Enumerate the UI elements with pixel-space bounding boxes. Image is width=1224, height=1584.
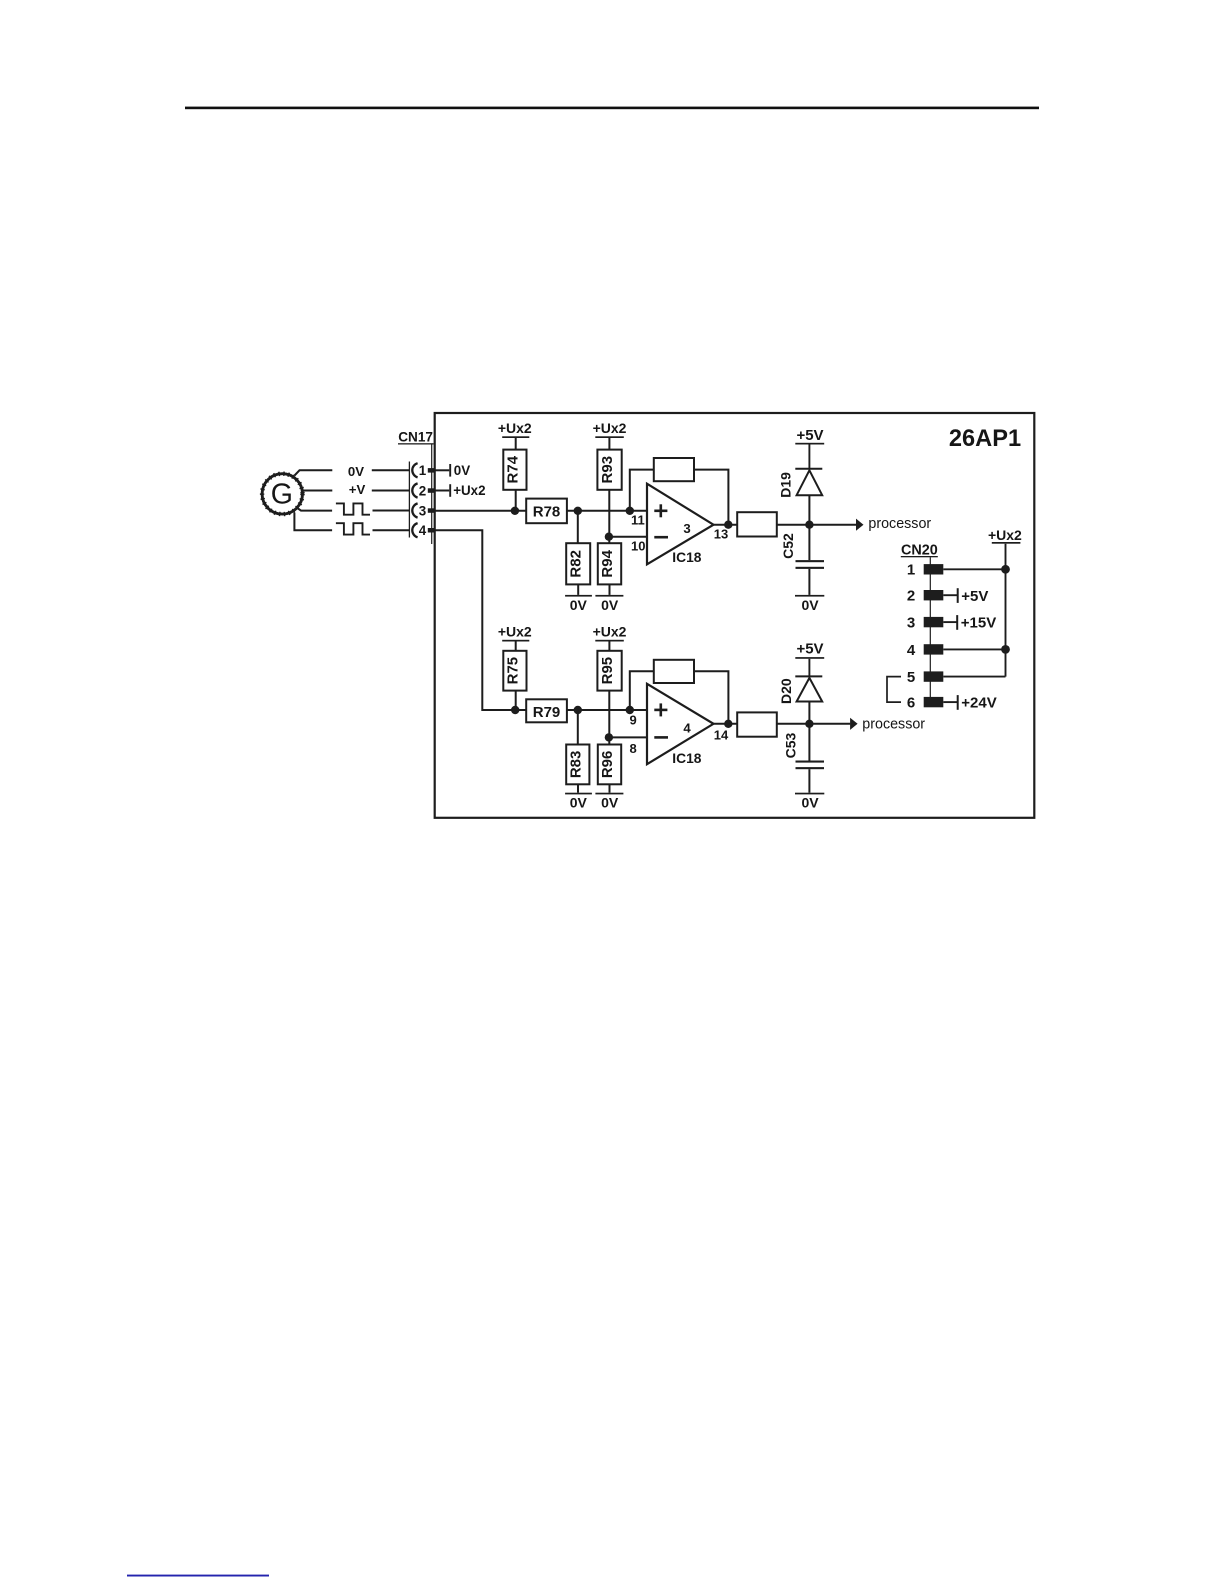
CN17 contact arc pin 2 <box>412 483 417 497</box>
CN20 pin pad 5 <box>924 671 944 681</box>
svg-text:+Ux2: +Ux2 <box>498 420 532 436</box>
feedback resistor opamp3 <box>654 458 694 481</box>
node A wire pin3 to R78 <box>434 510 526 512</box>
power +Ux2 at CN20 <box>988 527 1022 544</box>
svg-text:R93: R93 <box>599 456 616 484</box>
CN20 pin pad 2 <box>924 590 944 600</box>
node 11 junction dot <box>626 507 634 515</box>
CN20 pin pad 3 <box>924 617 944 627</box>
wire G to row2 <box>303 490 333 492</box>
svg-text:9: 9 <box>630 713 637 728</box>
op-amp IC18 section 4 <box>647 684 714 766</box>
resistor R83 <box>566 710 589 793</box>
junction dot D20/C53 <box>805 720 813 728</box>
CN20 pin pad 1 <box>924 564 944 574</box>
resistor R95 <box>597 651 621 745</box>
svg-text:G: G <box>271 478 293 510</box>
resistor R93 <box>597 450 621 544</box>
CN17 contact arc pin 1 <box>412 463 417 477</box>
svg-text:26AP1: 26AP1 <box>949 426 1021 452</box>
svg-text:0V: 0V <box>570 597 588 613</box>
feedback wire opamp4 <box>630 671 729 724</box>
ground 0V under R82 <box>565 595 592 613</box>
wire row2 to CN17 pin2 <box>372 490 410 492</box>
svg-text:0V: 0V <box>454 463 470 478</box>
junction dot R79/R83 <box>574 706 582 714</box>
wire pin4 down to lower channel <box>434 530 526 710</box>
resistor R94 <box>598 543 621 595</box>
junction dot R95/R96 inverting input <box>605 733 613 741</box>
connector CN20 <box>901 543 938 702</box>
ground 0V under C52 <box>795 595 824 613</box>
svg-text:IC18: IC18 <box>672 550 701 565</box>
svg-text:processor: processor <box>868 516 931 532</box>
svg-text:11: 11 <box>631 513 645 528</box>
junction dot R74/pin3 <box>511 507 519 515</box>
svg-text:R94: R94 <box>599 549 616 577</box>
svg-text:0V: 0V <box>601 597 619 613</box>
CN17 pin pad 3 <box>428 508 435 513</box>
wire to processor upper <box>809 524 856 526</box>
svg-text:CN17: CN17 <box>398 430 433 445</box>
junction dot R78/R82 <box>574 507 582 515</box>
output coupling box opamp3 <box>737 512 777 536</box>
output node dot opamp4 <box>724 720 732 728</box>
header rule <box>185 107 1039 110</box>
svg-text:0V: 0V <box>570 795 588 811</box>
svg-text:C53: C53 <box>783 732 799 758</box>
svg-text:4: 4 <box>907 642 916 659</box>
ground 0V under R94 <box>595 595 623 613</box>
junction dot pin1 rail <box>1001 565 1010 574</box>
wire row1 to CN17 pin1 <box>372 469 410 471</box>
power +Ux2 at R74 <box>498 420 532 450</box>
svg-text:4: 4 <box>683 720 691 735</box>
resistor R79 <box>526 699 567 722</box>
capacitor C53 <box>783 724 825 793</box>
junction dot D19/C52 <box>805 521 813 529</box>
svg-text:R96: R96 <box>599 751 616 779</box>
svg-text:IC18: IC18 <box>672 751 701 766</box>
wire G to row3 <box>297 508 332 511</box>
CN20 pin pad 4 <box>924 644 944 654</box>
svg-text:R75: R75 <box>505 657 522 685</box>
svg-text:R78: R78 <box>533 503 561 520</box>
CN17 pin pad 1 <box>428 468 435 473</box>
CN17 pin pad 2 <box>428 488 435 493</box>
wire pin1 to +Ux2 rail <box>943 568 1005 570</box>
CN17 contact arc pin 3 <box>412 503 417 517</box>
svg-text:+5V: +5V <box>796 640 823 657</box>
svg-text:2: 2 <box>419 483 426 498</box>
wire pin4 to +Ux2 rail <box>943 648 1005 650</box>
0V tick pin1 <box>449 464 451 477</box>
svg-text:6: 6 <box>907 695 915 712</box>
CN17 pin pad 4 <box>428 528 435 533</box>
power +5V at D20 <box>795 640 824 675</box>
wire opamp4 output <box>714 723 738 725</box>
wire G to row4 <box>294 513 332 531</box>
svg-text:+V: +V <box>349 482 366 497</box>
board outline 26AP1 <box>435 413 1035 818</box>
power +Ux2 at R93 <box>593 420 627 450</box>
wire G to row1 <box>295 470 333 475</box>
power +Ux2 at R75 <box>498 623 532 651</box>
power +5V at D19 <box>795 427 824 468</box>
junction dot R75/pin4 wire <box>511 706 519 714</box>
CN20 pin pad 6 <box>924 697 944 707</box>
resistor R75 <box>503 651 526 710</box>
wire row3 to CN17 pin3 <box>373 510 410 512</box>
output coupling box opamp4 <box>737 712 777 736</box>
svg-text:1: 1 <box>419 463 427 478</box>
junction dot pin4 rail <box>1001 645 1010 654</box>
wire to D19/C52 junction <box>777 524 810 526</box>
svg-text:0V: 0V <box>801 597 819 613</box>
svg-text:14: 14 <box>714 727 729 742</box>
square wave symbol row3 <box>336 503 370 514</box>
svg-text:+Ux2: +Ux2 <box>498 623 532 639</box>
power +Ux2 at R95 <box>593 623 627 651</box>
svg-text:3: 3 <box>419 503 426 518</box>
svg-text:R79: R79 <box>533 704 561 721</box>
connector CN17 <box>398 430 434 544</box>
svg-text:0V: 0V <box>348 464 364 479</box>
ground 0V under R96 <box>595 793 623 811</box>
output node dot opamp3 <box>724 521 732 529</box>
generator G1 <box>262 474 302 514</box>
svg-text:R82: R82 <box>568 550 585 578</box>
svg-text:5: 5 <box>907 669 915 686</box>
wire to D20/C53 junction <box>777 723 810 725</box>
arrow processor upper <box>856 519 864 531</box>
+5V tick CN20 pin2 <box>957 588 959 603</box>
svg-text:R83: R83 <box>568 751 585 779</box>
svg-text:10: 10 <box>631 539 645 554</box>
CN17 contact arc pin 4 <box>412 523 417 537</box>
+Ux2 rail wire CN20 <box>1005 544 1007 677</box>
svg-text:+15V: +15V <box>961 615 996 632</box>
svg-text:+24V: +24V <box>961 695 996 712</box>
svg-text:+Ux2: +Ux2 <box>988 527 1022 543</box>
arrow processor lower <box>850 718 858 730</box>
svg-text:8: 8 <box>630 741 637 756</box>
svg-text:+Ux2: +Ux2 <box>593 420 627 436</box>
svg-text:1: 1 <box>907 562 915 579</box>
ground 0V under R83 <box>565 793 592 811</box>
wire pin5 to +Ux2 rail <box>943 676 1005 678</box>
svg-text:C52: C52 <box>780 533 796 559</box>
jumper link pins 5-6 <box>887 677 901 703</box>
svg-text:13: 13 <box>714 526 728 541</box>
wire inverting input to opamp <box>609 536 647 538</box>
svg-text:3: 3 <box>683 521 690 536</box>
wire pin6 to +24V <box>943 701 957 703</box>
resistor R78 <box>526 499 567 524</box>
wire row4 to CN17 pin4 <box>373 529 410 531</box>
wire pin2 inside to +Ux2 <box>434 490 449 492</box>
svg-text:4: 4 <box>419 523 427 538</box>
ground 0V under C53 <box>795 793 824 811</box>
svg-text:R95: R95 <box>599 657 616 685</box>
svg-text:+5V: +5V <box>961 588 988 605</box>
svg-text:3: 3 <box>907 615 915 632</box>
svg-text:2: 2 <box>907 588 915 605</box>
junction dot R93/R94 inverting input <box>605 533 613 541</box>
+24V tick CN20 pin6 <box>957 695 959 710</box>
resistor R74 <box>503 450 526 511</box>
feedback resistor opamp4 <box>654 660 694 683</box>
node 9 junction dot <box>626 706 634 714</box>
capacitor C52 <box>780 525 824 595</box>
wire opamp3 output <box>714 524 738 526</box>
svg-text:+5V: +5V <box>796 427 823 444</box>
wire to processor lower <box>809 723 850 725</box>
wire inverting input to opamp4 <box>609 736 647 738</box>
svg-text:0V: 0V <box>801 795 819 811</box>
diode D20 <box>778 676 822 723</box>
wire R79 to opamp4 <box>567 709 647 711</box>
wire pin3 to +15V <box>943 621 956 623</box>
svg-text:R74: R74 <box>505 455 522 483</box>
svg-text:+Ux2: +Ux2 <box>453 483 485 498</box>
resistor R82 <box>566 511 590 595</box>
wire pin2 to +5V <box>943 594 957 596</box>
svg-text:D20: D20 <box>778 678 794 704</box>
+15V tick CN20 pin3 <box>956 615 958 630</box>
square wave symbol row4 <box>336 523 370 534</box>
svg-text:D19: D19 <box>778 472 794 498</box>
wire pin1 inside to 0V <box>434 469 449 471</box>
feedback wire opamp3 <box>630 470 729 525</box>
resistor R96 <box>598 745 621 793</box>
svg-text:+Ux2: +Ux2 <box>593 623 627 639</box>
svg-text:0V: 0V <box>601 795 619 811</box>
svg-text:processor: processor <box>862 716 925 732</box>
wire R78 to opamp <box>567 510 647 512</box>
op-amp IC18 section 3 <box>647 484 714 565</box>
footer link underline <box>127 1575 269 1577</box>
+Ux2 tick pin2 <box>449 484 451 497</box>
diode D19 <box>778 469 823 525</box>
